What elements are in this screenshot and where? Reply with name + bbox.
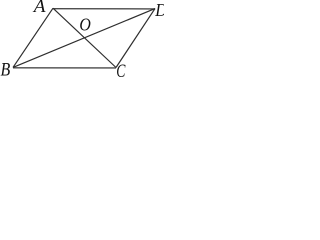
svg-text:A: A — [33, 0, 47, 16]
diagonal AC — [53, 8, 116, 67]
svg-text:C: C — [116, 61, 125, 77]
svg-text:D: D — [154, 0, 164, 20]
svg-text:O: O — [79, 15, 90, 35]
side AD — [53, 8, 155, 10]
side CD — [116, 9, 155, 68]
diagonal BD — [13, 9, 155, 68]
svg-text:B: B — [1, 58, 11, 77]
side AB — [13, 8, 53, 67]
side BC — [13, 67, 116, 69]
